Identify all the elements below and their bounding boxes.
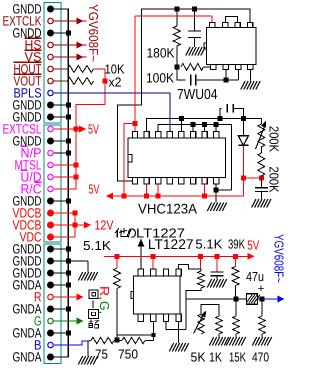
wire U2 bpin7 riser xyxy=(204,184,206,196)
wire B in xyxy=(54,341,88,345)
wire GND pin y=333 xyxy=(54,332,68,334)
U1 bottom pins xyxy=(211,64,253,69)
pin 26 contact GNDA xyxy=(47,306,54,313)
wire osc top rail xyxy=(142,9,251,105)
pin 3 label GNDD xyxy=(13,25,42,40)
wire N/P to GND bus xyxy=(54,152,68,154)
pin 26 label GNDA xyxy=(13,301,42,316)
pin 25 contact R xyxy=(48,294,53,299)
wire HS out xyxy=(53,44,87,46)
wire U3 bpin3 (output) xyxy=(166,322,186,330)
pin 3 contact GNDD xyxy=(47,30,54,37)
pin 16 label R/C xyxy=(21,181,42,196)
junction GND y=309 xyxy=(66,307,71,312)
capacitor C-fb xyxy=(191,75,196,86)
arrow 5V bus label xyxy=(106,193,113,200)
pin 23 contact GNDD xyxy=(47,270,54,277)
pin 8 contact BPLS xyxy=(48,90,53,95)
pin 11 label EXTCSL xyxy=(3,121,42,136)
ground (pin22) xyxy=(78,272,97,281)
wire pot-1K link xyxy=(201,305,219,317)
junction diode-pot xyxy=(241,176,246,181)
U3 bottom pins xyxy=(138,314,181,322)
wire U2 pin8 riser xyxy=(215,125,217,132)
pin 20 label VDC xyxy=(20,229,42,244)
pin 10 label GNDD xyxy=(13,109,42,124)
wire U2 bpin3 riser xyxy=(157,184,159,196)
wire U/D to 5V rail xyxy=(54,176,76,178)
ground (B input) xyxy=(78,356,97,365)
pin 1 contact GNDD xyxy=(47,6,54,13)
junction U/D xyxy=(74,175,79,180)
junction bus bpin7 xyxy=(202,194,207,199)
label 47u xyxy=(246,269,264,284)
pin 10 contact GNDD xyxy=(47,114,54,121)
wire 100K to U1 pin xyxy=(204,66,211,68)
wire node to 750 xyxy=(117,340,122,342)
pin 11 contact EXTCSL xyxy=(48,126,53,131)
wire 5V to VHC pin1 xyxy=(134,16,136,132)
pin 29 contact B xyxy=(48,342,53,347)
pin 7 label VOUT xyxy=(14,73,42,88)
ground (C-byp) xyxy=(207,279,226,288)
label 他の (CJK, hand-drawn) xyxy=(115,228,136,237)
junction GND y=201 xyxy=(66,199,71,204)
wire osc net to VHC (wrap left) xyxy=(118,105,142,181)
label 10K xyxy=(105,62,125,77)
wire pin3 GNDD to bus xyxy=(54,32,68,34)
junction line-A pin5 xyxy=(179,116,184,121)
wire 15K top lead xyxy=(235,299,237,316)
label 回 (1st) xyxy=(89,290,98,299)
wire U2 line-A xyxy=(147,119,262,132)
svg-text:200K: 200K xyxy=(267,126,282,152)
pin 8 label BPLS xyxy=(14,85,42,100)
resistor 470 xyxy=(259,316,265,334)
pin 19 label VDCB xyxy=(13,217,42,232)
pin 28 label GNDA xyxy=(13,325,42,340)
wire 75 to node xyxy=(114,340,117,342)
wire GND pin y=105 xyxy=(54,104,68,106)
resistor 100K xyxy=(181,63,204,70)
wire U1 pin4-bottom to ground xyxy=(249,70,251,81)
svg-text:VHC123A: VHC123A xyxy=(138,201,198,217)
label | (vertical tie) xyxy=(92,301,94,309)
label 5.1K (second) xyxy=(195,236,222,251)
junction GND y=285 xyxy=(66,283,71,288)
svg-text:180K: 180K xyxy=(147,46,175,61)
wire 750 to U3 xyxy=(145,335,153,341)
junction GND y=249 xyxy=(66,247,71,252)
arrow to other LT1227 xyxy=(138,239,145,270)
pin 29 label B xyxy=(34,337,42,352)
junction line-B pin6 xyxy=(191,122,196,127)
wire 470 top lead xyxy=(261,299,263,316)
wire EXTCSL to 5V rail xyxy=(54,128,76,130)
pin 6 label HOUT xyxy=(14,61,42,76)
wire 5V net to U1 pin1 xyxy=(135,16,212,22)
wire C-fb to U1 pins xyxy=(196,79,239,81)
junction line-B pin8 xyxy=(214,122,219,127)
junction diode node xyxy=(241,116,246,121)
wire diode anode xyxy=(242,119,244,136)
resistor 750 xyxy=(122,337,145,343)
ground (U1 pin4) xyxy=(241,81,260,90)
capacitor 47u (electrolytic, hatched) xyxy=(246,294,260,304)
wire 12V rail vertical xyxy=(74,213,76,237)
op-amp U3 LT1227 body xyxy=(131,276,180,314)
connector J1 housing (middle section) xyxy=(44,125,61,242)
wire B to 75 xyxy=(88,340,91,343)
junction GND y=141 xyxy=(66,139,71,144)
wire C-osc top lead xyxy=(194,9,196,31)
capacitor C-byp xyxy=(211,272,224,276)
pin 19 contact VDCB xyxy=(47,222,54,229)
ground (1K) xyxy=(209,337,228,346)
ground (C-osc) xyxy=(186,47,205,56)
junction 180K top xyxy=(174,6,179,11)
label R, (rotated) xyxy=(97,286,112,300)
arrow HS to YGV608F xyxy=(77,42,84,49)
wire U2 pin7 riser xyxy=(204,125,206,132)
junction C-osc top xyxy=(192,6,197,11)
wire 10K join xyxy=(94,69,106,81)
wire diode-pot link xyxy=(243,177,261,179)
wire G out xyxy=(53,320,77,322)
arrow VS to YGV608F xyxy=(77,54,84,61)
wire U2 line-B xyxy=(158,125,231,191)
wire EXTCLK out xyxy=(53,20,87,22)
wire C-osc to ground xyxy=(194,38,196,48)
pin 27 contact G xyxy=(48,318,53,323)
wire BPLS to VHC123A xyxy=(54,93,170,132)
junction EXTCSL 5V xyxy=(74,127,79,132)
svg-text:GNDA: GNDA xyxy=(13,349,42,364)
label 180K xyxy=(147,46,175,61)
junction output 15K xyxy=(234,297,239,302)
resistor 200K (lower) xyxy=(258,153,265,176)
wire GND bus vertical xyxy=(54,9,68,357)
junction GND y=333 xyxy=(66,331,71,336)
label 750 xyxy=(118,347,138,362)
label G, (rotated) xyxy=(97,301,112,314)
svg-text:G,: G, xyxy=(97,301,112,314)
pin 20 contact VDC xyxy=(47,234,54,241)
wire HOUT to R 10K xyxy=(53,68,68,70)
wire VDC to 12V rail xyxy=(54,236,75,238)
junction bus bpin3 xyxy=(156,194,161,199)
junction bus bpin2 xyxy=(144,194,149,199)
pin 9 label GNDD xyxy=(13,97,42,112)
wire MTSL to 5V rail xyxy=(54,164,76,166)
wire GNDA pin30 xyxy=(54,356,68,358)
resistor 1K xyxy=(216,316,222,334)
label YGV608F (bottom, rotated) xyxy=(272,234,287,283)
junction cap-tr left xyxy=(218,116,223,121)
svg-text:x2: x2 xyxy=(109,75,122,90)
wire line-A to pot xyxy=(260,119,262,125)
svg-text:5V: 5V xyxy=(88,122,99,137)
U1 top pins xyxy=(210,22,253,27)
wire 39K bottom lead xyxy=(235,286,237,300)
pin 6 contact HOUT xyxy=(48,66,53,71)
junction bpin8 gnd xyxy=(214,188,219,193)
label x2 xyxy=(109,75,122,90)
junction line-B pin7 xyxy=(202,122,207,127)
pin 13 label N/P xyxy=(21,145,42,160)
svg-text:+: + xyxy=(258,283,265,295)
wire B termination ground xyxy=(87,341,89,356)
pin 2 contact EXTCLK xyxy=(48,18,53,23)
junction GND y=273 xyxy=(66,271,71,276)
svg-text:39K: 39K xyxy=(228,236,245,251)
wire 5.1K-1 bottom lead xyxy=(116,289,118,341)
junction 5V rail x=217 xyxy=(215,254,220,259)
svg-text:5.1K: 5.1K xyxy=(83,238,111,253)
pin 5 contact VS xyxy=(48,54,53,59)
label + (47u polarity) xyxy=(258,283,265,295)
wire 1K ground lead xyxy=(218,334,220,337)
arrow output to YGV608F xyxy=(262,296,285,303)
pin 27 label G xyxy=(34,313,42,328)
label 5V (rail) xyxy=(247,237,259,252)
wire U3 bpin2 path xyxy=(117,322,153,335)
pin 5 label VS xyxy=(25,49,42,64)
wire 10K node down-left xyxy=(54,81,105,189)
trimmer 200K (upper) xyxy=(258,124,265,147)
pin 23 label GNDD xyxy=(13,265,42,280)
label LT1227 xyxy=(148,236,194,252)
capacitor C-osc xyxy=(188,31,201,38)
wire LT pin2 riser xyxy=(152,256,154,269)
connector J1 housing (lower section) xyxy=(44,244,61,364)
wire U1 pin3-bottom riser xyxy=(237,70,239,81)
capacitor C-tr xyxy=(227,104,233,113)
label 100K xyxy=(146,71,174,86)
label 75 xyxy=(95,347,108,362)
wire C-pot to ground xyxy=(260,192,262,199)
junction MTSL xyxy=(74,163,79,168)
wire bypass cap lead xyxy=(216,256,218,272)
wire GND pin y=273 xyxy=(54,272,68,274)
resistor 15K xyxy=(233,316,239,334)
wire VOUT to R 10K xyxy=(53,80,68,82)
label 200K (lower, rotated) xyxy=(267,167,282,193)
junction 10K node xyxy=(103,79,108,84)
label 470 xyxy=(252,350,269,365)
label 他のLT1227 (latin part) xyxy=(136,225,185,240)
wire 5V bus (VHC bottom) xyxy=(113,195,243,197)
svg-text:470: 470 xyxy=(252,350,269,365)
junction pot bottom xyxy=(259,176,264,181)
pin 28 contact GNDA xyxy=(47,330,54,337)
wire GND pin y=141 xyxy=(54,140,68,142)
ground (C-pot) xyxy=(252,199,271,208)
junction 5V rail x=200.5 xyxy=(198,254,203,259)
pin 15 label U/D xyxy=(21,169,42,184)
svg-text:75: 75 xyxy=(95,347,108,362)
wire 5.1K-2 to output riser xyxy=(186,269,201,329)
svg-text:100K: 100K xyxy=(146,71,174,86)
arrow 5V rail xyxy=(248,253,255,260)
wire GND pin y=249 xyxy=(54,248,68,250)
pin 4 label HS xyxy=(25,37,42,52)
wire VHC pin1 node to 5V bus xyxy=(124,124,135,197)
junction 100K node xyxy=(174,64,179,69)
wire pot node to cap xyxy=(260,178,262,188)
pin 22 label GNDD xyxy=(13,253,42,268)
wiper arrow 200K xyxy=(256,120,269,149)
svg-text:5V: 5V xyxy=(247,237,259,252)
diode D1 xyxy=(238,136,248,146)
junction N/P GND xyxy=(66,151,71,156)
wire diode cathode xyxy=(242,145,244,178)
svg-text:1K: 1K xyxy=(209,350,222,365)
resistor 75 xyxy=(91,337,114,343)
resistor 10K (HOUT) xyxy=(68,66,94,73)
wire U2 bpin8 riser xyxy=(215,184,217,203)
pin 13 contact N/P xyxy=(48,150,53,155)
wire 39K top lead xyxy=(235,256,237,266)
ground (U2 pin8) xyxy=(207,203,226,212)
wire GND pin y=285 xyxy=(54,284,68,286)
wiper arrow 5K xyxy=(194,309,209,333)
wire bpin8 to wrapB xyxy=(216,189,231,191)
wire 200K bottom xyxy=(260,176,262,178)
pin 21 contact GNDD xyxy=(47,246,54,253)
label YGV608F (top, rotated) xyxy=(86,4,101,62)
wire GND pin y=201 xyxy=(54,200,68,202)
IC U2 VHC123A body xyxy=(128,138,226,178)
resistor 39K xyxy=(232,267,239,286)
pin 12 contact GNDD xyxy=(47,138,54,145)
label 7WU04 xyxy=(177,87,218,103)
pin 30 contact GNDA xyxy=(47,354,54,361)
wire U1 pins2-3 bridge xyxy=(225,17,237,23)
wire cap-tr right xyxy=(233,108,243,118)
junction 5V rail x=117 xyxy=(115,254,120,259)
pin 18 label VDCB xyxy=(13,205,42,220)
wire fb node down xyxy=(177,67,186,80)
svg-text:12V: 12V xyxy=(95,218,114,233)
svg-text:750: 750 xyxy=(118,347,138,362)
svg-text:7WU04: 7WU04 xyxy=(177,87,218,103)
wire R out xyxy=(53,296,77,298)
junction VHC pin1 node xyxy=(133,121,138,126)
junction GNDD22 xyxy=(66,259,71,264)
wire U2 pin6 riser xyxy=(192,125,194,132)
wire U2 bpin2 riser xyxy=(146,184,148,196)
junction GND y=117 xyxy=(66,115,71,120)
pin 7 contact VOUT xyxy=(48,78,53,83)
resistor 5.1K (first) xyxy=(114,268,121,289)
junction 75/750 node xyxy=(115,338,120,343)
pin 16 contact R/C xyxy=(48,186,53,191)
wire VS out xyxy=(53,56,87,58)
svg-text:15K: 15K xyxy=(229,350,246,365)
pin 9 contact GNDD xyxy=(47,102,54,109)
svg-text:R,: R, xyxy=(97,286,112,300)
svg-text:5.1K: 5.1K xyxy=(195,236,222,251)
pin 14 label MTSL xyxy=(15,157,42,172)
svg-text:47u: 47u xyxy=(246,269,264,284)
trimmer 5K xyxy=(198,314,204,334)
junction pin3 GND xyxy=(66,31,71,36)
pin 25 label R xyxy=(34,289,42,304)
connector J1 housing (upper section) xyxy=(44,3,61,124)
svg-text:200K: 200K xyxy=(267,167,282,193)
pin 22 contact GNDD xyxy=(47,258,54,265)
arrow 12V xyxy=(75,222,91,229)
junction GND y=105 xyxy=(66,103,71,108)
ground (U3) xyxy=(169,343,188,352)
arrow 5V (EXTCSL row) xyxy=(76,126,86,133)
svg-text:LT1227: LT1227 xyxy=(148,236,194,252)
wire cap-tr left riser xyxy=(220,108,222,118)
label 回 (2nd) xyxy=(89,310,99,319)
svg-text:5V: 5V xyxy=(89,182,100,197)
wire 5V bus right corner xyxy=(242,178,244,196)
junction VDCB-1 xyxy=(73,211,78,216)
junction 5V rail x=153 xyxy=(151,254,156,259)
pin 17 contact GNDD xyxy=(47,198,54,205)
label 5.1K (first) xyxy=(83,238,111,253)
junction bpin2 corner xyxy=(151,333,155,337)
pin 24 label GNDA xyxy=(13,277,42,292)
junction output 470 xyxy=(260,297,265,302)
wire 15K ground lead xyxy=(235,334,237,337)
capacitor C-pot xyxy=(255,188,268,192)
pin 2 label EXTCLK xyxy=(3,13,42,28)
wire 180K top lead xyxy=(176,9,178,26)
U2 bottom pins xyxy=(132,178,219,185)
wire LT pin4 link xyxy=(179,264,202,269)
label 5V (EXTCSL row) xyxy=(88,122,99,137)
U2 top pins xyxy=(132,132,219,139)
label 15K xyxy=(229,350,246,365)
resistor 10K (VOUT) xyxy=(68,78,94,85)
label 5K xyxy=(191,350,206,365)
label 200K (upper, rotated) xyxy=(267,126,282,152)
wire LT pin4 jog xyxy=(200,256,202,269)
label 39K xyxy=(228,236,245,251)
pin 21 label GNDD xyxy=(13,241,42,256)
junction VDCB-2 xyxy=(73,223,78,228)
pin 1 label GNDD xyxy=(13,1,42,16)
arrow R to circuit xyxy=(77,294,84,301)
pin 17 label GNDD xyxy=(13,193,42,208)
label 12V xyxy=(95,218,114,233)
wire 180K bottom lead xyxy=(176,46,178,67)
resistor 180K xyxy=(173,26,180,46)
label 5V (bus) xyxy=(89,182,100,197)
pin 30 label GNDA xyxy=(13,349,42,364)
junction 5V rail x=235.5 xyxy=(233,254,238,259)
wire VDCB-1 to 12V rail xyxy=(54,212,75,214)
pin 24 contact GNDA xyxy=(47,282,54,289)
ground (470) xyxy=(252,337,271,346)
arrow EXTCLK to YGV608F xyxy=(77,18,84,25)
pin 4 contact HS xyxy=(48,42,53,47)
wire GND pin y=309 xyxy=(54,308,68,310)
wire C-byp to ground xyxy=(216,276,218,279)
label 1K xyxy=(209,350,222,365)
resistor 5.1K (second) xyxy=(198,271,205,288)
pin 15 contact U/D xyxy=(48,174,53,179)
pin 12 label GNDD xyxy=(13,133,42,148)
ground (15K) xyxy=(226,337,245,346)
arrow G to circuit xyxy=(77,318,84,325)
